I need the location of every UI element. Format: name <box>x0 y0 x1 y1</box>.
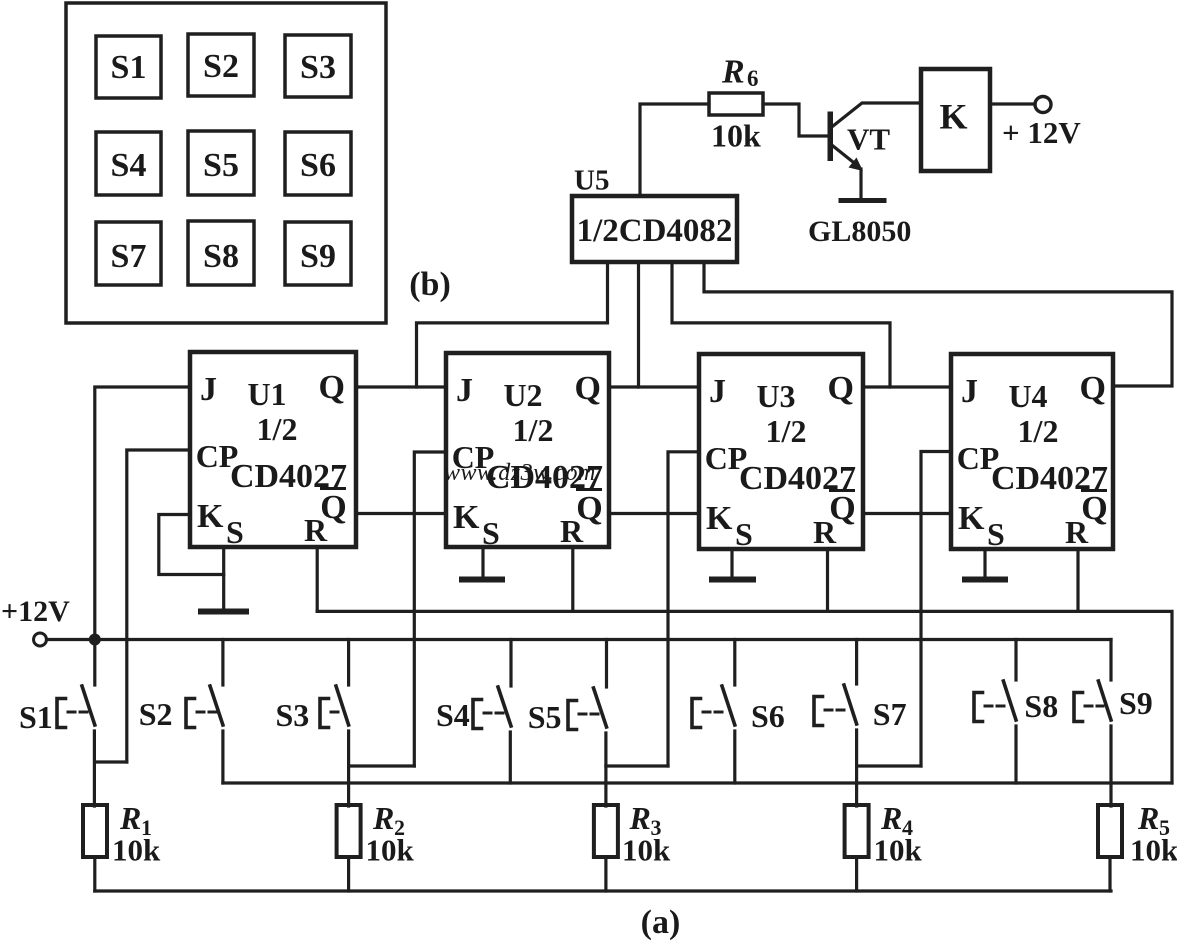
svg-text:R: R <box>629 800 651 836</box>
even switch rail <box>223 781 1172 784</box>
resistor R5 <box>1098 805 1122 891</box>
svg-text:10k: 10k <box>622 833 671 868</box>
U2 labels <box>452 370 603 551</box>
svg-text:+ 12V: + 12V <box>1002 115 1081 150</box>
svg-text:J: J <box>961 373 978 410</box>
relay K box <box>921 69 990 171</box>
svg-text:U3: U3 <box>756 378 795 414</box>
svg-text:S: S <box>226 514 244 550</box>
svg-text:10k: 10k <box>366 833 415 868</box>
svg-text:VT: VT <box>847 122 890 157</box>
svg-text:10k: 10k <box>112 833 161 868</box>
svg-text:S: S <box>482 515 500 551</box>
flip-flop U4 box <box>951 354 1113 549</box>
wire R6 right to VT base <box>763 104 828 136</box>
svg-text:R: R <box>372 800 394 836</box>
wire R-U3 stem <box>826 549 829 611</box>
U4 labels <box>957 370 1108 552</box>
wire K to +12V terminal <box>990 102 1035 105</box>
switch S2 <box>186 640 223 784</box>
svg-text:S7: S7 <box>111 238 147 275</box>
wire R-U1 stem <box>316 547 319 611</box>
svg-text:6: 6 <box>747 66 759 91</box>
wire S-U3 stem <box>730 549 733 577</box>
wire S-U4 stem <box>983 549 986 577</box>
terminal +12V circle <box>1035 97 1051 113</box>
key S9 <box>285 222 351 285</box>
wire S-U2 stem <box>481 547 484 577</box>
junction node dot <box>89 634 101 646</box>
switch S1 <box>57 640 127 807</box>
resistor labels <box>112 800 1177 868</box>
key S6 <box>285 132 351 195</box>
wire R-U2 stem <box>571 547 574 611</box>
wire CP-U1 to S1 <box>127 450 190 762</box>
key S5 <box>188 131 254 195</box>
svg-text:S5: S5 <box>528 699 562 735</box>
svg-text:S9: S9 <box>300 238 336 275</box>
svg-text:Q: Q <box>827 370 853 407</box>
svg-text:Q: Q <box>1081 490 1107 527</box>
AND gate U5 box <box>572 196 737 262</box>
ground VT <box>841 198 884 203</box>
svg-text:Q: Q <box>320 489 346 526</box>
Qbar overbars <box>320 489 1107 491</box>
switch S6 <box>692 640 735 784</box>
resistor R2 <box>337 805 361 891</box>
svg-text:R: R <box>119 800 141 836</box>
svg-text:J: J <box>456 372 473 409</box>
svg-text:K: K <box>939 97 967 137</box>
resistor R3 <box>594 805 618 891</box>
resistor R4 <box>845 805 869 891</box>
wire CP-U4 to S7 <box>921 452 951 767</box>
switch labels <box>19 685 1153 735</box>
transistor VT collector <box>833 103 921 126</box>
svg-text:+12V: +12V <box>1 595 70 628</box>
reset rail R pins <box>317 611 1172 783</box>
terminal +12V left circle <box>34 633 47 646</box>
wire J-U1 to +12V <box>95 387 190 640</box>
transistor VT emitter arrowhead <box>849 158 864 172</box>
wire Qbar3 to K-U4 <box>863 512 951 515</box>
wire Q1 to J-U2 <box>356 385 446 388</box>
svg-text:S6: S6 <box>751 698 785 734</box>
ground U4 <box>965 577 1005 583</box>
key S8 <box>188 221 254 285</box>
ground U1 <box>201 609 246 615</box>
svg-text:1/2: 1/2 <box>1018 413 1059 449</box>
keypad outer box (b) <box>66 3 386 323</box>
svg-text:U2: U2 <box>503 377 542 413</box>
svg-text:GL8050: GL8050 <box>808 215 911 248</box>
key S4 <box>96 132 161 195</box>
svg-text:J: J <box>709 373 726 410</box>
svg-text:1/2CD4082: 1/2CD4082 <box>577 213 733 249</box>
svg-text:U1: U1 <box>247 376 286 412</box>
U5 pin3 wire to Q3 node <box>672 262 890 387</box>
svg-text:(b): (b) <box>409 266 451 303</box>
svg-text:S8: S8 <box>203 238 239 275</box>
switch S5 <box>568 640 668 807</box>
svg-text:S1: S1 <box>19 699 53 735</box>
svg-text:1/2: 1/2 <box>257 411 298 447</box>
svg-text:1/2: 1/2 <box>513 412 554 448</box>
svg-text:K: K <box>197 498 224 535</box>
svg-text:10k: 10k <box>711 118 761 154</box>
svg-text:Q: Q <box>576 490 602 527</box>
svg-text:www.dz3w.com: www.dz3w.com <box>444 460 596 486</box>
svg-text:S6: S6 <box>300 147 336 184</box>
svg-text:S: S <box>987 516 1005 552</box>
svg-text:S4: S4 <box>436 697 470 733</box>
svg-text:Q: Q <box>1079 370 1105 407</box>
svg-text:(a): (a) <box>641 904 681 941</box>
switch S9 <box>1074 640 1111 807</box>
U5 pin1 wire to Q1 node <box>417 262 608 387</box>
svg-text:R: R <box>721 54 745 91</box>
svg-text:Q: Q <box>318 369 344 406</box>
svg-text:S7: S7 <box>873 696 907 732</box>
svg-text:U5: U5 <box>574 165 609 197</box>
svg-text:Q: Q <box>574 370 600 407</box>
svg-text:J: J <box>200 371 217 408</box>
svg-text:S4: S4 <box>111 147 147 184</box>
wire K-U1 to S-U1 <box>159 515 224 575</box>
bottom ground rail <box>95 889 1111 892</box>
transistor VT base bar <box>828 112 834 162</box>
U5 pin4 wire to Q4 node <box>704 262 1172 386</box>
wire S-U1 stem <box>222 547 225 609</box>
wire Qbar2 to K-U3 <box>609 512 699 515</box>
wire CP-U3 to S5 <box>668 452 699 766</box>
U5 pin2 wire to Q2 node <box>637 262 640 387</box>
+12V rail <box>47 638 1112 641</box>
resistor R1 <box>83 805 107 891</box>
transistor VT emitter <box>833 146 853 162</box>
U1 labels <box>196 369 347 550</box>
key S7 <box>96 222 161 285</box>
ground U2 <box>462 577 502 583</box>
key S1 <box>96 36 161 98</box>
wire CP-U2 to S3 <box>414 452 446 766</box>
svg-text:S3: S3 <box>276 697 310 733</box>
switch S4 <box>473 640 511 784</box>
svg-text:R: R <box>880 800 902 836</box>
wire R-U4 stem <box>1076 549 1079 611</box>
svg-text:K: K <box>706 500 733 537</box>
svg-text:S5: S5 <box>203 147 239 184</box>
key S3 <box>285 35 351 97</box>
svg-text:K: K <box>958 500 985 537</box>
svg-text:S2: S2 <box>139 696 173 732</box>
svg-text:10k: 10k <box>874 833 923 868</box>
switch S7 <box>814 640 921 807</box>
svg-text:S9: S9 <box>1119 685 1153 721</box>
flip-flop U3 box <box>699 354 863 549</box>
wire R6 left to U5 top <box>640 104 709 196</box>
svg-text:10k: 10k <box>1130 833 1177 868</box>
resistor R6 body <box>709 93 763 115</box>
wire emitter down <box>859 169 862 199</box>
svg-text:S: S <box>735 516 753 552</box>
wire Qbar1 to K-U2 <box>356 512 446 515</box>
ground U3 <box>712 577 753 583</box>
svg-text:1/2: 1/2 <box>766 413 807 449</box>
wire Q3 to J-U4 <box>863 385 951 388</box>
U3 labels <box>705 370 856 552</box>
svg-text:R: R <box>1137 800 1159 836</box>
switch S3 <box>320 640 414 807</box>
wire Q2 to J-U3 <box>609 385 699 388</box>
flip-flop U2 box <box>446 353 609 547</box>
flip-flop U1 box <box>190 352 356 547</box>
svg-text:S2: S2 <box>203 48 239 85</box>
svg-text:S1: S1 <box>111 49 147 86</box>
svg-text:S3: S3 <box>300 49 336 86</box>
svg-text:U4: U4 <box>1008 378 1047 414</box>
svg-text:Q: Q <box>829 490 855 527</box>
svg-text:K: K <box>453 499 480 536</box>
svg-text:S8: S8 <box>1024 688 1058 724</box>
key S2 <box>188 34 254 96</box>
switch S8 <box>974 640 1016 784</box>
